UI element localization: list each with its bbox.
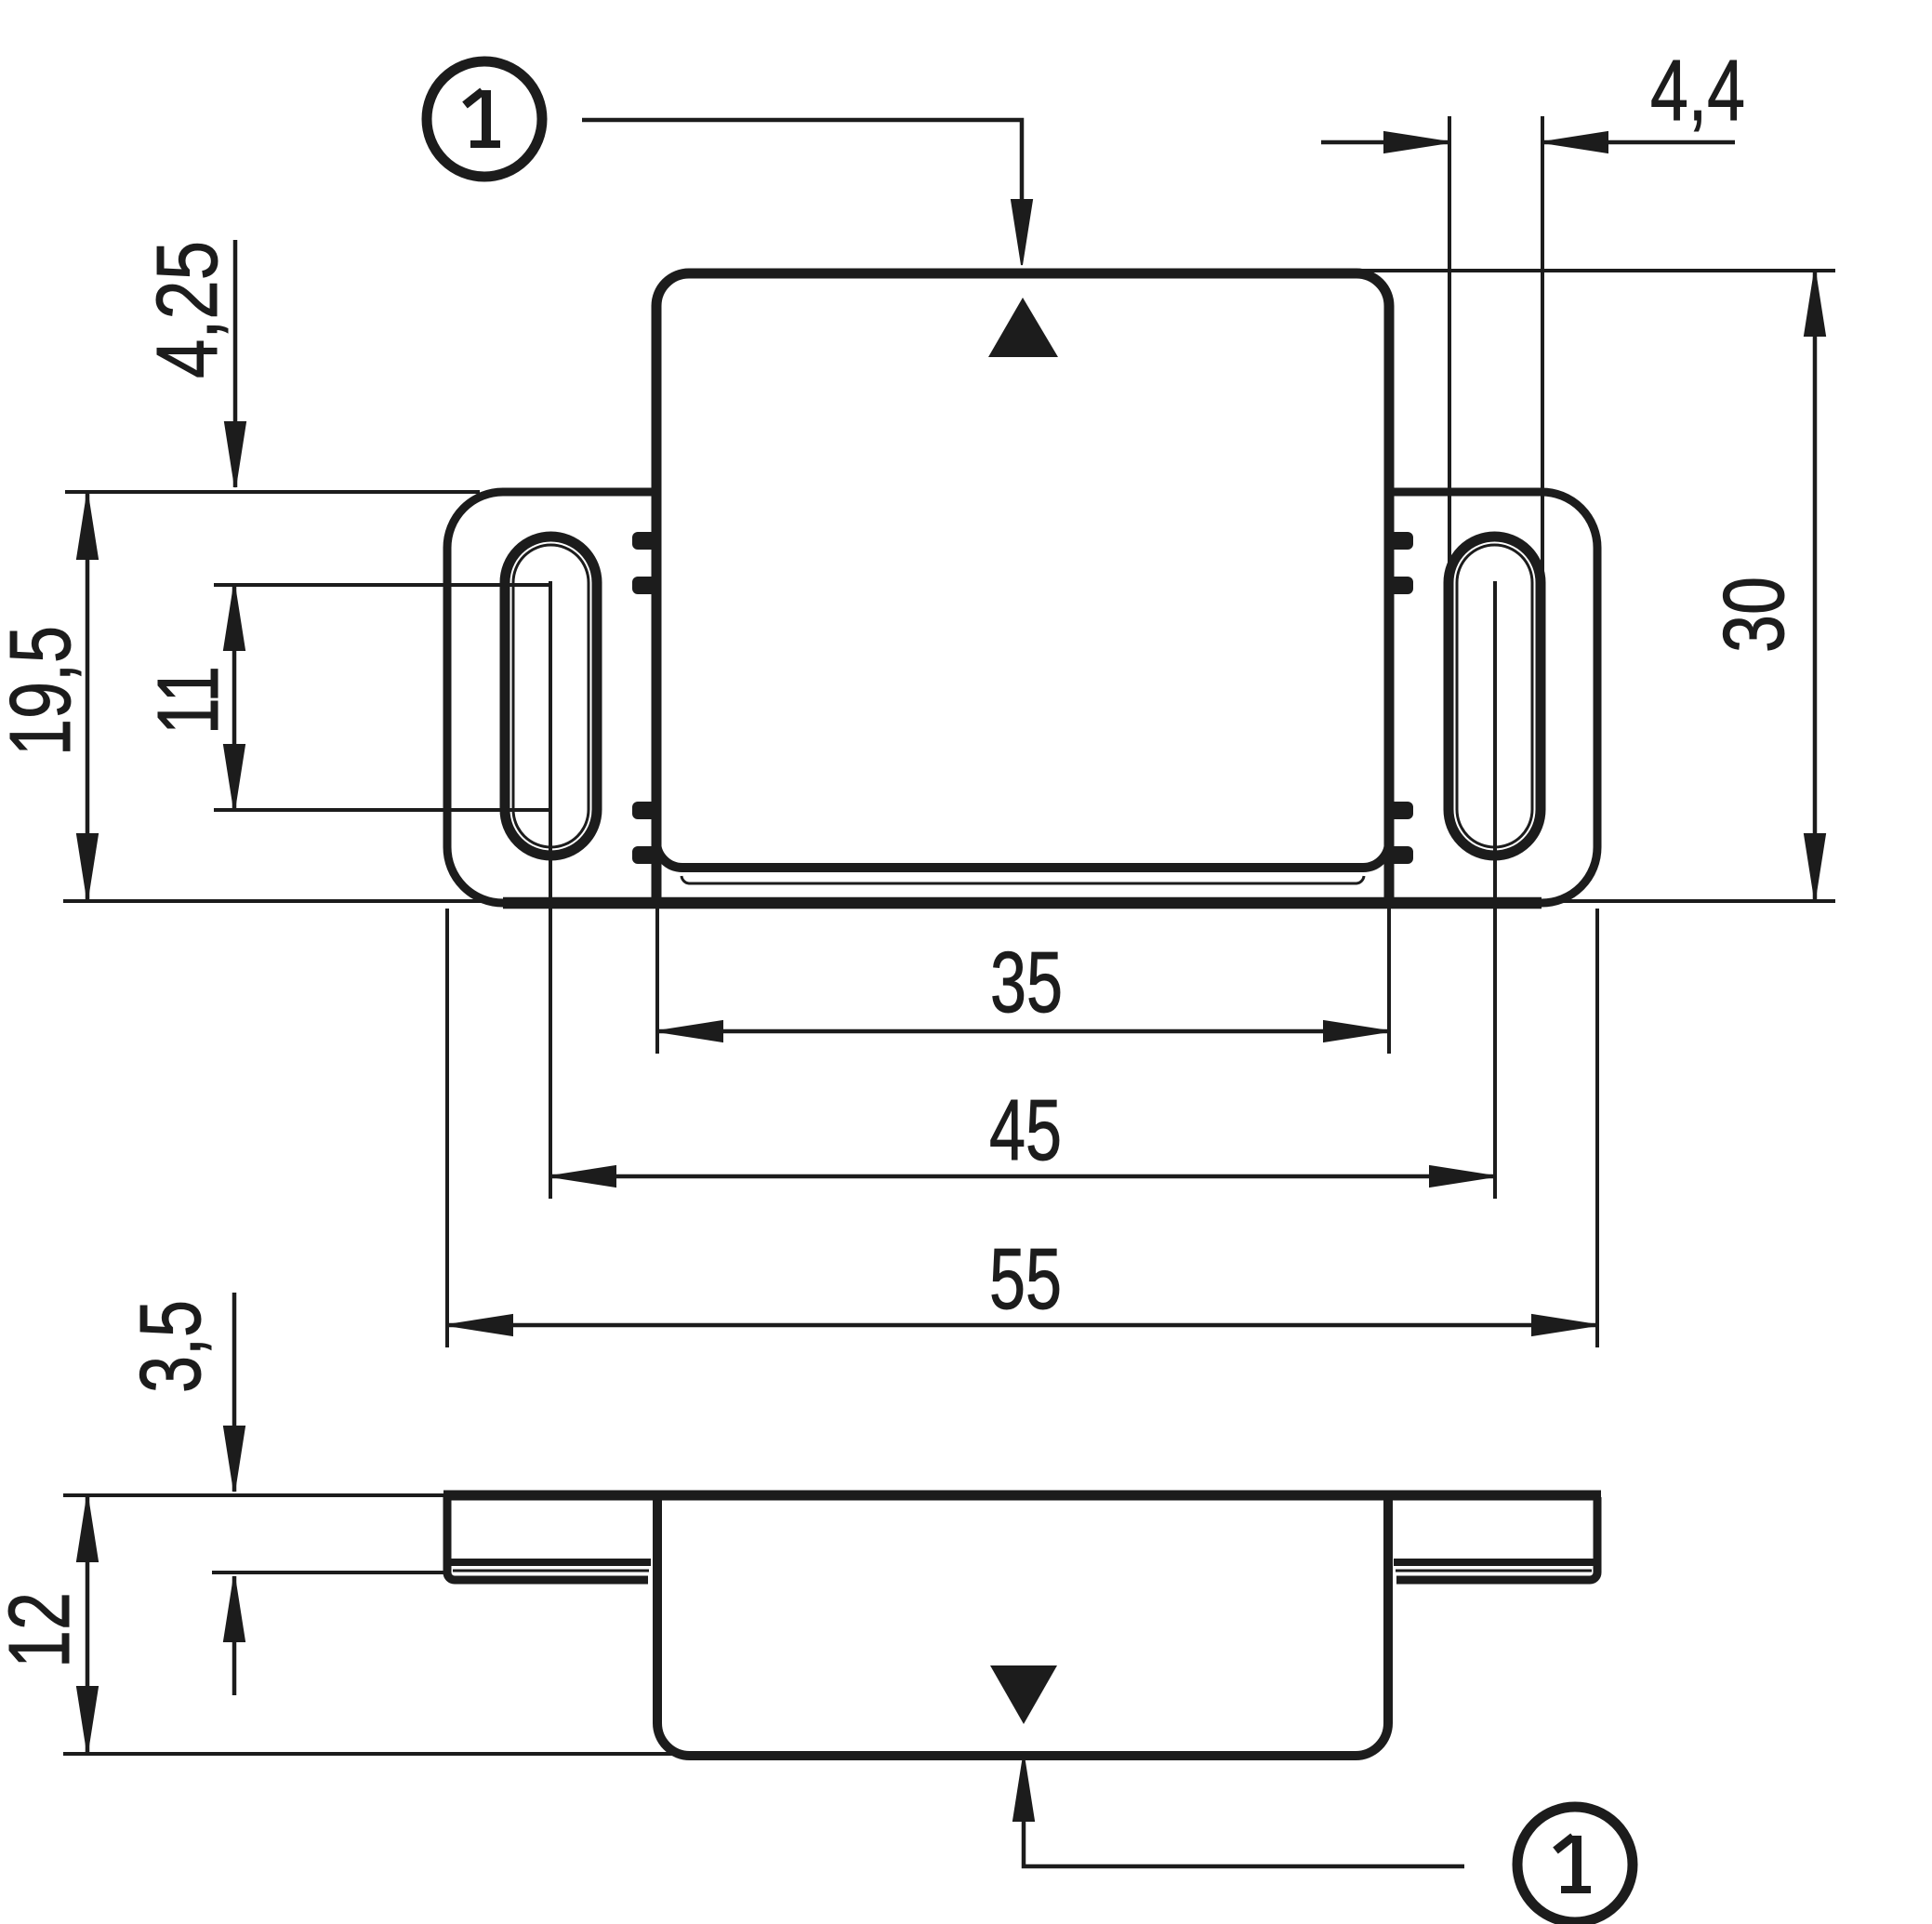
svg-text:35: 35 bbox=[990, 934, 1063, 1030]
top view: plate bottom edge across bbox=[503, 897, 1542, 909]
dimension 4,25 shaft and arrow bbox=[233, 240, 238, 487]
dimension 35 extension lines bbox=[655, 907, 659, 1054]
side view: left ear end bbox=[447, 1497, 648, 1580]
dimension 11 extension lines bbox=[214, 583, 550, 587]
side view: left ear bottom inner heavy line bbox=[449, 1559, 651, 1566]
side view: right ear bottom inner heavy line bbox=[1394, 1559, 1595, 1566]
side view: left ear bottom thin line bbox=[453, 1570, 649, 1572]
leader circle 1 top bbox=[427, 61, 542, 177]
top view: left mounting tab outline bbox=[447, 492, 654, 903]
side view: right ear end bbox=[1396, 1497, 1597, 1580]
top view: cover bottom edge bbox=[656, 840, 1389, 868]
marker triangle top (active face) bbox=[988, 298, 1058, 357]
dimension 12 line bbox=[86, 1496, 90, 1752]
datum baseline under top view bbox=[63, 899, 1835, 903]
dimension 4,4 line with outside arrows bbox=[1321, 140, 1449, 145]
side view: top surface heavy line bbox=[443, 1491, 1601, 1501]
side view: body outline bbox=[657, 1495, 1388, 1756]
top view: cover inner lip thin line bbox=[681, 876, 1364, 883]
svg-text:4,4: 4,4 bbox=[1650, 42, 1745, 139]
digit 1 in bottom circle bbox=[1555, 1836, 1591, 1890]
svg-text:12: 12 bbox=[0, 1592, 87, 1668]
top view: left slot outer bbox=[505, 537, 597, 856]
side view: datum line top left bbox=[63, 1493, 447, 1497]
dimension 55 extension lines bbox=[445, 909, 449, 1347]
dimension 19,5 line bbox=[86, 494, 90, 899]
top view: body (cover) outline bbox=[656, 273, 1389, 903]
svg-text:45: 45 bbox=[989, 1081, 1062, 1178]
svg-text:55: 55 bbox=[989, 1230, 1062, 1327]
svg-text:11: 11 bbox=[139, 666, 236, 735]
dimension 35 line bbox=[657, 1029, 1389, 1034]
top view: crimp notches right side bbox=[1387, 532, 1413, 864]
svg-text:3,5: 3,5 bbox=[122, 1300, 218, 1393]
leader line bottom bbox=[1024, 1821, 1464, 1866]
top view: crimp notches left side bbox=[632, 532, 658, 864]
dimension 45 extension lines (slot centres) bbox=[549, 581, 552, 1199]
top view: right slot inner thin bbox=[1457, 545, 1532, 847]
dimension 3,5 lower arrow and shaft bbox=[232, 1576, 237, 1695]
dimension 30 line bbox=[1813, 271, 1818, 899]
svg-text:19,5: 19,5 bbox=[0, 626, 88, 756]
side view: datum line bottom left bbox=[63, 1752, 681, 1756]
side view: ear bottom extension line bbox=[212, 1571, 448, 1574]
leader arrow top bbox=[1012, 200, 1032, 265]
dimension 55 line bbox=[447, 1323, 1597, 1328]
leader line top bbox=[582, 120, 1022, 200]
leader circle 1 bottom bbox=[1517, 1807, 1633, 1922]
dimension 4,4 extension lines bbox=[1448, 116, 1451, 577]
side view: right ear bottom thin line bbox=[1396, 1570, 1592, 1572]
top view: left slot inner thin bbox=[513, 545, 589, 847]
dimension 3,5 upper shaft and arrow bbox=[232, 1293, 237, 1492]
dimension 11 line bbox=[232, 585, 237, 810]
top view: right mounting tab outline bbox=[1392, 492, 1597, 903]
dimension 45 line bbox=[550, 1174, 1495, 1179]
svg-text:4,25: 4,25 bbox=[139, 241, 235, 378]
dimension 4,25 extension line at tab top bbox=[65, 490, 480, 494]
digit 1 in top circle bbox=[465, 90, 500, 144]
top view: right slot outer bbox=[1449, 537, 1541, 856]
leader arrow bottom bbox=[1013, 1756, 1034, 1821]
svg-text:30: 30 bbox=[1705, 577, 1802, 653]
marker triangle bottom (active face) bbox=[990, 1665, 1057, 1724]
dimension 30 extension line top bbox=[1361, 269, 1835, 272]
